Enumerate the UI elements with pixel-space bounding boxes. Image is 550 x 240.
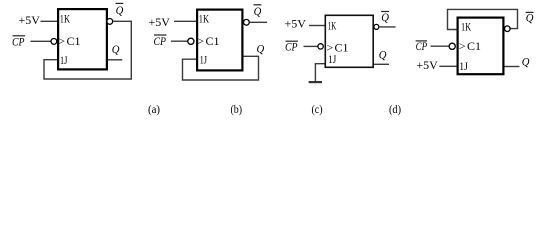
Q output stub wire (d) — [505, 66, 520, 68]
wire CP to clock bubble (d) — [431, 45, 449, 47]
svg-text:+5V: +5V — [285, 16, 307, 30]
svg-text:(a): (a) — [148, 102, 160, 116]
overline of CP label (c) — [286, 40, 299, 42]
clock input bubble (b) — [188, 38, 194, 44]
svg-text:1J: 1J — [60, 53, 68, 67]
wire +5V to 1K pin (a) — [41, 20, 58, 22]
svg-text:1J: 1J — [328, 52, 336, 66]
overline of CP label (d) — [416, 40, 427, 42]
svg-text:CP: CP — [12, 35, 25, 49]
svg-text:Q: Q — [116, 3, 124, 17]
svg-text:+5V: +5V — [416, 58, 438, 72]
wire +5V to 1K pin (b) — [174, 20, 197, 22]
feedback wire Q to 1J (b) — [183, 56, 259, 80]
JK flip-flop box (d) — [458, 18, 504, 75]
feedback wire Qbar to 1J (a) — [44, 21, 131, 79]
overline of Qbar label (c) — [381, 11, 389, 13]
JK flip-flop box (c) — [325, 15, 373, 67]
overline of CP label (a) — [13, 35, 26, 37]
svg-text:C1: C1 — [206, 34, 220, 48]
Qbar output bubble (b) — [244, 19, 250, 25]
svg-text:1J: 1J — [200, 53, 208, 67]
wire CP to clock bubble (b) — [171, 40, 188, 42]
svg-text:Q: Q — [379, 48, 387, 62]
wire CP to clock bubble (a) — [31, 40, 51, 42]
svg-text:>: > — [197, 34, 204, 48]
Q output stub wire (a) — [108, 59, 122, 61]
svg-text:C1: C1 — [67, 34, 81, 48]
Qbar output bubble (a) — [107, 19, 113, 25]
clock input bubble (a) — [51, 39, 57, 45]
svg-text:CP: CP — [154, 34, 167, 48]
svg-text:C1: C1 — [335, 40, 349, 54]
Qbar output bubble (c) — [374, 24, 379, 29]
JK flip-flop box (a) — [58, 9, 107, 69]
svg-text:1J: 1J — [459, 59, 468, 73]
wire +5V to 1J pin (d) — [439, 65, 457, 67]
Q output stub wire (c) — [374, 63, 389, 65]
svg-text:(c): (c) — [312, 102, 323, 116]
clock input bubble (d) — [449, 43, 455, 49]
overline of Qbar label (d) — [526, 11, 534, 13]
Qbar output stub wire (c) — [379, 26, 396, 28]
ground symbol (c) — [309, 81, 322, 83]
wire 1J to ground (c) — [315, 64, 324, 82]
overline of Qbar label (b) — [254, 4, 262, 6]
Qbar output stub wire (b) — [249, 21, 267, 23]
svg-text:(d): (d) — [389, 102, 401, 116]
overline of Qbar label (a) — [116, 2, 124, 4]
svg-text:Q: Q — [254, 4, 262, 18]
svg-text:C1: C1 — [467, 39, 481, 53]
wire CP to clock bubble (c) — [304, 45, 319, 47]
clock input bubble (c) — [318, 44, 323, 49]
svg-text:Q: Q — [257, 41, 265, 55]
svg-text:+5V: +5V — [149, 15, 171, 29]
svg-text:Q: Q — [522, 55, 530, 69]
svg-text:1K: 1K — [328, 19, 337, 33]
svg-text:>: > — [459, 39, 466, 53]
wire +5V to 1K pin (c) — [309, 25, 325, 27]
svg-text:1K: 1K — [461, 20, 471, 34]
svg-text:Q: Q — [112, 42, 120, 56]
svg-text:>: > — [58, 34, 65, 48]
svg-text:1K: 1K — [60, 11, 70, 25]
svg-text:1K: 1K — [199, 11, 209, 25]
feedback wire Qbar to 1K over the top (d) — [448, 9, 518, 29]
svg-text:+5V: +5V — [19, 13, 41, 27]
svg-text:(b): (b) — [231, 102, 243, 116]
JK flip-flop box (b) — [197, 10, 242, 71]
Qbar output bubble (d) — [505, 26, 511, 32]
overline of CP label (b) — [154, 34, 167, 36]
